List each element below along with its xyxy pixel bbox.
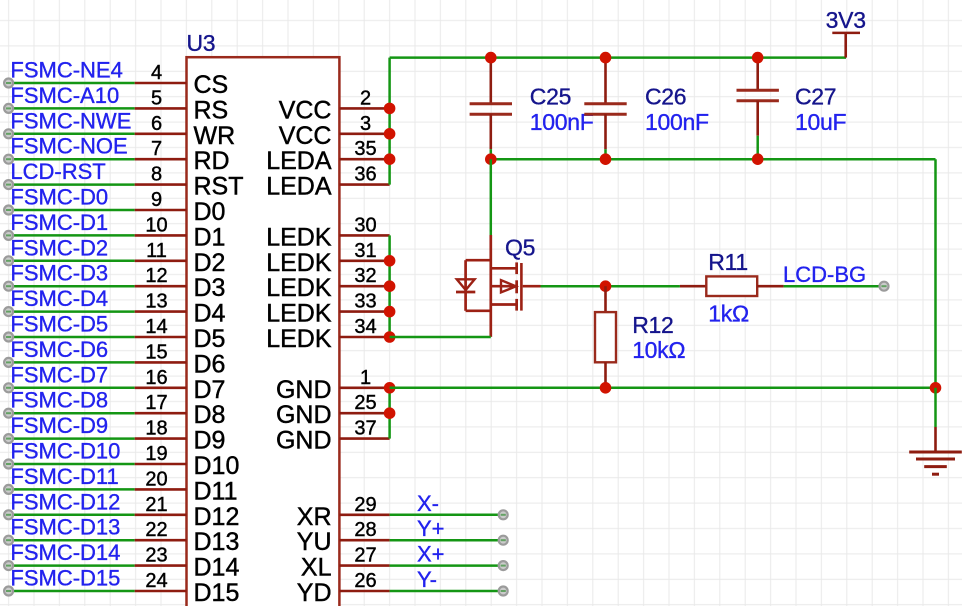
svg-text:8: 8: [151, 164, 162, 186]
svg-text:13: 13: [145, 291, 167, 313]
junction R12/GND: [600, 382, 612, 394]
svg-text:LCD-BG: LCD-BG: [783, 262, 866, 287]
junction pin 35 / LEDA rail: [384, 153, 396, 165]
no-connect flag pin 17: [4, 409, 13, 418]
wire X+: [390, 564, 504, 567]
svg-text:FSMC-D13: FSMC-D13: [10, 515, 120, 540]
svg-text:24: 24: [145, 570, 167, 592]
svg-text:RST: RST: [194, 173, 244, 201]
wire net FSMC-D2: [9, 260, 187, 263]
svg-text:LEDK: LEDK: [266, 325, 332, 353]
no-connect flag Y-: [499, 587, 508, 596]
wire net FSMC-NWE: [9, 133, 187, 136]
svg-text:GND: GND: [276, 401, 332, 429]
junction pin 34: [384, 331, 396, 343]
svg-text:D13: D13: [194, 528, 240, 556]
no-connect flag X-: [499, 510, 508, 519]
wire right vertical: [934, 159, 937, 388]
svg-text:XR: XR: [297, 503, 332, 531]
no-connect flag pin 11: [4, 256, 13, 265]
no-connect flag pin 9: [4, 206, 13, 215]
svg-text:19: 19: [145, 443, 167, 465]
wire net FSMC-D1: [9, 234, 187, 237]
no-connect flag pin 8: [4, 180, 13, 189]
wire net FSMC-NOE: [9, 158, 187, 161]
no-connect flag pin 5: [4, 104, 13, 113]
wire net FSMC-D10: [9, 463, 187, 466]
svg-text:23: 23: [145, 545, 167, 567]
svg-text:D2: D2: [194, 249, 226, 277]
no-connect flag Y+: [499, 536, 508, 545]
svg-text:7: 7: [151, 138, 162, 160]
svg-text:VCC: VCC: [279, 96, 332, 124]
svg-text:R12: R12: [632, 312, 673, 338]
no-connect flag pin 21: [4, 510, 13, 519]
wire LCD-BG: [784, 285, 884, 288]
svg-text:D4: D4: [194, 300, 226, 328]
svg-text:100nF: 100nF: [530, 109, 594, 135]
svg-text:RD: RD: [194, 147, 230, 175]
wire net FSMC-NE4: [9, 82, 187, 85]
junction pin 2: [384, 103, 396, 115]
wire Q5 gate to R12: [541, 285, 606, 288]
no-connect flag pin 6: [4, 129, 13, 138]
resistor R12: [595, 286, 616, 388]
svg-text:32: 32: [354, 265, 376, 287]
wire 3V3 rail: [390, 56, 846, 59]
pin 32 stub (LEDK): [339, 285, 389, 288]
svg-text:27: 27: [354, 545, 376, 567]
pin 1 stub (GND): [339, 386, 389, 389]
pin 30 stub (LEDK): [339, 234, 389, 237]
pin 35 stub (LEDA): [339, 158, 389, 161]
no-connect flag pin 16: [4, 383, 13, 392]
svg-text:CS: CS: [194, 71, 229, 99]
svg-text:LEDK: LEDK: [266, 249, 332, 277]
svg-text:3V3: 3V3: [826, 7, 866, 33]
pin 2 stub (VCC): [339, 107, 389, 110]
svg-text:21: 21: [145, 494, 167, 516]
svg-text:D1: D1: [194, 223, 226, 251]
junction pin 33: [384, 306, 396, 318]
svg-text:LEDK: LEDK: [266, 223, 332, 251]
svg-text:LEDA: LEDA: [266, 173, 332, 201]
svg-text:C25: C25: [530, 84, 571, 110]
svg-text:FSMC-D9: FSMC-D9: [10, 413, 108, 438]
svg-text:14: 14: [145, 316, 167, 338]
no-connect flag X+: [499, 561, 508, 570]
wire net FSMC-D0: [9, 209, 187, 212]
svg-text:Q5: Q5: [505, 235, 535, 261]
svg-text:20: 20: [145, 468, 167, 490]
svg-text:FSMC-D5: FSMC-D5: [10, 312, 108, 337]
pin 27 stub (XL): [339, 564, 389, 567]
wire R12 to R11: [606, 285, 680, 288]
svg-text:FSMC-D7: FSMC-D7: [10, 362, 108, 387]
svg-text:25: 25: [354, 392, 376, 414]
wire net FSMC-D12: [9, 514, 187, 517]
pin 34 stub (LEDK): [339, 336, 389, 339]
svg-text:FSMC-D8: FSMC-D8: [10, 388, 108, 413]
wire net FSMC-D14: [9, 564, 187, 567]
svg-text:30: 30: [354, 214, 376, 236]
svg-text:D7: D7: [194, 376, 226, 404]
no-connect flag pin 12: [4, 282, 13, 291]
no-connect flag pin 4: [4, 79, 13, 88]
svg-text:31: 31: [354, 240, 376, 262]
svg-text:YD: YD: [297, 579, 332, 606]
junction C25 bottom: [485, 153, 497, 165]
pin 3 stub (VCC): [339, 133, 389, 136]
wire GND rail: [390, 387, 936, 390]
svg-text:D10: D10: [194, 452, 240, 480]
junction GND rail/right vertical: [930, 382, 942, 394]
svg-text:D3: D3: [194, 274, 226, 302]
svg-text:X+: X+: [417, 542, 445, 567]
capacitor C26: [584, 58, 626, 160]
ground: [909, 388, 962, 474]
capacitor C27: [737, 58, 779, 160]
svg-text:33: 33: [354, 291, 376, 313]
svg-text:LCD-RST: LCD-RST: [10, 159, 105, 184]
svg-text:1kΩ: 1kΩ: [708, 301, 749, 327]
svg-text:15: 15: [145, 341, 167, 363]
wire net FSMC-D11: [9, 488, 187, 491]
svg-text:GND: GND: [276, 376, 332, 404]
no-connect flag pin 19: [4, 460, 13, 469]
junction pin 32: [384, 280, 396, 292]
junction pin 3: [384, 128, 396, 140]
pin 26 stub (YD): [339, 590, 389, 593]
no-connect flag pin 24: [4, 587, 13, 596]
wire net FSMC-D15: [9, 590, 187, 593]
no-connect flag pin 15: [4, 358, 13, 367]
wire net FSMC-A10: [9, 107, 187, 110]
svg-text:3: 3: [360, 113, 371, 135]
svg-text:C27: C27: [795, 84, 836, 110]
svg-text:YU: YU: [297, 528, 332, 556]
wire LEDK to Q5 source: [390, 336, 491, 339]
svg-text:FSMC-D14: FSMC-D14: [10, 540, 120, 565]
svg-text:RS: RS: [194, 96, 229, 124]
svg-text:WR: WR: [194, 122, 236, 150]
svg-text:FSMC-D15: FSMC-D15: [10, 566, 120, 591]
svg-text:FSMC-D4: FSMC-D4: [10, 286, 108, 311]
svg-text:R11: R11: [708, 249, 748, 275]
svg-text:LEDK: LEDK: [266, 300, 332, 328]
junction C26 bottom: [600, 153, 612, 165]
wire Y+: [390, 539, 504, 542]
svg-text:FSMC-D1: FSMC-D1: [10, 210, 108, 235]
svg-text:12: 12: [145, 265, 167, 287]
svg-text:10: 10: [145, 214, 167, 236]
no-connect flag pin 13: [4, 307, 13, 316]
svg-text:D9: D9: [194, 427, 226, 455]
wire net FSMC-D5: [9, 336, 187, 339]
svg-text:FSMC-NOE: FSMC-NOE: [10, 134, 127, 159]
no-connect flag pin 23: [4, 561, 13, 570]
svg-text:FSMC-D10: FSMC-D10: [10, 439, 120, 464]
svg-text:FSMC-D3: FSMC-D3: [10, 261, 108, 286]
svg-text:X-: X-: [417, 491, 439, 516]
svg-text:29: 29: [354, 494, 376, 516]
svg-text:D14: D14: [194, 554, 240, 582]
capacitor C25: [470, 58, 512, 160]
svg-text:LEDA: LEDA: [266, 147, 332, 175]
no-connect flag pin 22: [4, 536, 13, 545]
svg-text:Y+: Y+: [417, 516, 445, 541]
svg-text:FSMC-D2: FSMC-D2: [10, 235, 108, 260]
svg-text:1: 1: [360, 367, 371, 389]
svg-text:D8: D8: [194, 401, 226, 429]
pin 25 stub (GND): [339, 412, 389, 415]
IC U3 body: [187, 57, 340, 606]
pin 28 stub (YU): [339, 539, 389, 542]
svg-text:35: 35: [354, 138, 376, 160]
svg-text:D0: D0: [194, 198, 226, 226]
svg-text:5: 5: [151, 87, 162, 109]
svg-text:Y-: Y-: [417, 567, 437, 592]
svg-text:17: 17: [145, 392, 167, 414]
no-connect flag pin 14: [4, 333, 13, 342]
svg-text:18: 18: [145, 418, 167, 440]
wire LEDK vertical: [388, 235, 391, 337]
wire net FSMC-D7: [9, 387, 187, 390]
junction C25 top: [485, 52, 497, 64]
svg-text:4: 4: [151, 62, 162, 84]
svg-text:D11: D11: [194, 477, 238, 505]
svg-text:FSMC-D0: FSMC-D0: [10, 185, 108, 210]
svg-text:22: 22: [145, 519, 167, 541]
no-connect flag pin 18: [4, 434, 13, 443]
no-connect flag pin 7: [4, 155, 13, 164]
svg-text:FSMC-A10: FSMC-A10: [10, 83, 119, 108]
wire net FSMC-D9: [9, 437, 187, 440]
junction C26 top: [600, 52, 612, 64]
svg-text:10kΩ: 10kΩ: [632, 337, 685, 363]
pin 36 stub (LEDA): [339, 183, 389, 186]
no-connect flag pin 20: [4, 485, 13, 494]
svg-text:C26: C26: [645, 84, 686, 110]
wire net FSMC-D6: [9, 361, 187, 364]
junction pin 1: [384, 382, 396, 394]
junction gate/R12: [600, 280, 612, 292]
svg-text:U3: U3: [187, 30, 216, 56]
wire net LCD-RST: [9, 183, 187, 186]
wire net FSMC-D4: [9, 310, 187, 313]
wire net FSMC-D8: [9, 412, 187, 415]
no-connect flag LCD-BG: [880, 282, 889, 291]
svg-text:34: 34: [354, 316, 376, 338]
wire GND vertical: [388, 388, 391, 439]
wire X-: [390, 514, 504, 517]
wire Q5 drain feed: [490, 159, 493, 235]
svg-text:FSMC-D12: FSMC-D12: [10, 489, 120, 514]
wire LEDA rail: [491, 158, 936, 161]
svg-text:9: 9: [151, 189, 162, 211]
svg-text:XL: XL: [301, 554, 332, 582]
junction C27 top: [752, 52, 764, 64]
svg-text:D12: D12: [194, 503, 240, 531]
svg-text:26: 26: [354, 570, 376, 592]
wire VCC/LEDA vertical: [388, 58, 391, 185]
junction C27 bottom: [752, 153, 764, 165]
svg-text:FSMC-NWE: FSMC-NWE: [10, 108, 131, 133]
svg-text:FSMC-D6: FSMC-D6: [10, 337, 108, 362]
pin 37 stub (GND): [339, 437, 389, 440]
svg-text:GND: GND: [276, 427, 332, 455]
power symbol 3V3: [832, 33, 860, 58]
svg-text:11: 11: [146, 240, 167, 262]
svg-text:D6: D6: [194, 350, 226, 378]
svg-text:FSMC-NE4: FSMC-NE4: [10, 58, 122, 83]
transistor Q5: [456, 235, 541, 337]
svg-text:6: 6: [151, 113, 162, 135]
pin 33 stub (LEDK): [339, 310, 389, 313]
svg-text:LEDK: LEDK: [266, 274, 332, 302]
svg-text:36: 36: [354, 164, 376, 186]
svg-text:VCC: VCC: [279, 122, 332, 150]
svg-text:100nF: 100nF: [645, 109, 709, 135]
svg-text:28: 28: [354, 519, 376, 541]
wire net FSMC-D3: [9, 285, 187, 288]
svg-text:10uF: 10uF: [795, 109, 846, 135]
no-connect flag pin 10: [4, 231, 13, 240]
wire net FSMC-D13: [9, 539, 187, 542]
junction pin 25: [384, 407, 396, 419]
svg-text:2: 2: [360, 87, 371, 109]
svg-text:D15: D15: [194, 579, 240, 606]
svg-text:16: 16: [145, 367, 167, 389]
svg-text:37: 37: [354, 418, 376, 440]
svg-text:FSMC-D11: FSMC-D11: [10, 464, 118, 489]
pin 31 stub (LEDK): [339, 259, 389, 262]
resistor R11: [680, 276, 784, 296]
junction pin 31: [384, 255, 396, 267]
svg-text:D5: D5: [194, 325, 226, 353]
pin 29 stub (XR): [339, 513, 389, 516]
wire Y-: [390, 590, 504, 593]
